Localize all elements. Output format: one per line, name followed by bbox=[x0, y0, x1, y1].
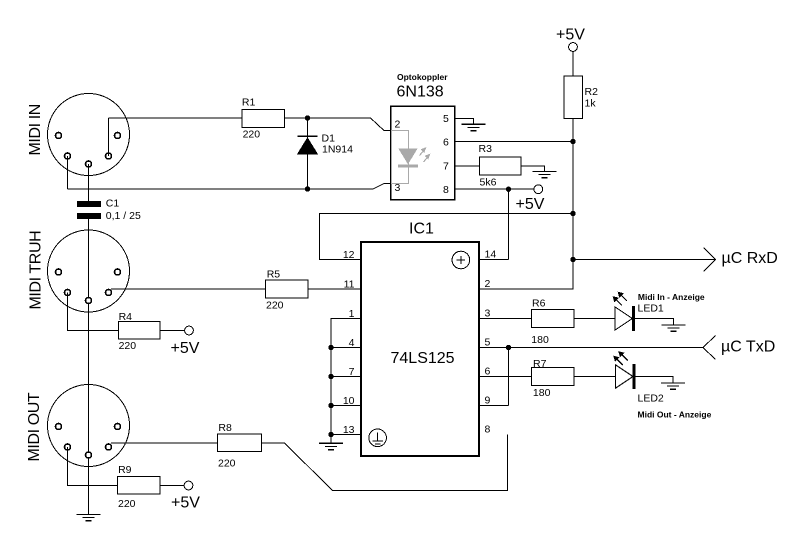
resistor R8 bbox=[218, 434, 262, 452]
ground (R3) bbox=[532, 171, 556, 177]
svg-text:R7: R7 bbox=[533, 358, 547, 370]
wire RxD node to uC RxD arrow bbox=[573, 259, 716, 261]
node junction bus pin13 bbox=[328, 432, 333, 437]
wire bus stub pin13 bbox=[331, 434, 361, 436]
ground (MIDI OUT shield) bbox=[77, 514, 101, 520]
diode D1 1N914 bbox=[298, 135, 318, 137]
wire TxD node down to pin9 bbox=[508, 348, 510, 406]
wire IC1 pin5 to uC TxD bbox=[479, 347, 703, 349]
svg-text:3: 3 bbox=[395, 182, 401, 194]
LED2 light arrows bbox=[613, 351, 627, 365]
node junction TxD/pin9 bbox=[506, 345, 511, 350]
wire IC1 pin6 to R7 bbox=[479, 376, 532, 378]
svg-text:3: 3 bbox=[485, 308, 491, 320]
svg-text:9: 9 bbox=[485, 395, 491, 407]
svg-text:5k6: 5k6 bbox=[480, 177, 497, 189]
wire IC1 pin3 to R6 bbox=[479, 318, 531, 320]
node junction bus pin4 bbox=[328, 345, 333, 350]
wire IC1 pin2 riser to RxD node bbox=[479, 260, 573, 290]
svg-text:R1: R1 bbox=[242, 97, 256, 109]
resistor R6 bbox=[531, 310, 574, 328]
wire LED1 to ground bbox=[635, 319, 674, 325]
node junction R2/pin12 rail bbox=[570, 211, 575, 216]
svg-text:220: 220 bbox=[119, 340, 137, 352]
svg-text:µC RxD: µC RxD bbox=[722, 250, 778, 267]
svg-text:+5V: +5V bbox=[516, 196, 545, 213]
svg-text:+5V: +5V bbox=[556, 27, 585, 44]
ground (IC1 enable bus) bbox=[319, 443, 343, 449]
connector MIDI IN (DIN socket) bbox=[48, 94, 130, 176]
svg-text:R4: R4 bbox=[119, 311, 133, 323]
wire MIDI IN pin5 dropper bbox=[67, 156, 69, 189]
wire R1 to optocoupler pin2 bbox=[285, 118, 391, 131]
svg-text:7: 7 bbox=[443, 161, 449, 173]
svg-text:6N138: 6N138 bbox=[397, 84, 444, 101]
svg-text:180: 180 bbox=[531, 334, 549, 346]
node junction R1/D1 bbox=[305, 115, 310, 120]
wire MIDI OUT pin4 to R8 bbox=[111, 442, 218, 444]
wire MIDI OUT pin5 dropper bbox=[68, 447, 118, 486]
wire bus stub pin10 bbox=[331, 405, 361, 407]
wire R3 to ground bbox=[521, 166, 545, 172]
svg-text:220: 220 bbox=[218, 457, 236, 469]
wire MIDI IN pin4 to R1 bbox=[109, 117, 243, 119]
svg-text:LED1: LED1 bbox=[638, 303, 664, 315]
wire R8 to IC1 pin8 (diagonal route) bbox=[262, 435, 508, 491]
node junction pin8/+5V bbox=[506, 187, 511, 192]
wire C1 down through MIDI TRUH and MIDI OUT to ground bbox=[88, 219, 90, 514]
svg-text:IC1: IC1 bbox=[409, 221, 434, 238]
svg-text:2: 2 bbox=[395, 119, 401, 131]
wire bus to ground bbox=[330, 435, 332, 444]
svg-text:C1: C1 bbox=[106, 198, 120, 210]
resistor R4 bbox=[119, 322, 161, 340]
svg-text:5: 5 bbox=[485, 337, 491, 349]
wire MIDI TRUH pin5 dropper bbox=[68, 293, 119, 331]
arrow uC RxD bbox=[704, 248, 716, 272]
svg-text:8: 8 bbox=[443, 184, 449, 196]
wire MIDI IN pin2 to C1 bbox=[88, 164, 90, 201]
terminal +5V (R4) bbox=[185, 326, 194, 335]
IC U2 74LS125 bbox=[361, 242, 479, 456]
svg-text:11: 11 bbox=[344, 279, 355, 291]
wire IC1 pin9 bbox=[479, 405, 509, 407]
resistor R9 bbox=[118, 477, 161, 495]
svg-text:0,1 / 25: 0,1 / 25 bbox=[106, 210, 141, 222]
svg-text:220: 220 bbox=[118, 498, 136, 510]
wire opto pin7 to R3 bbox=[455, 165, 480, 167]
capacitor C1 bbox=[77, 201, 101, 207]
svg-text:µC TxD: µC TxD bbox=[721, 339, 775, 356]
svg-text:74LS125: 74LS125 bbox=[391, 350, 455, 367]
connector MIDI TRUH (DIN socket) bbox=[48, 230, 130, 312]
wire opto pin8 to +5V terminal bbox=[455, 188, 534, 190]
wire R9 to +5V terminal bbox=[160, 485, 184, 487]
IC1 power symbol bbox=[452, 251, 470, 269]
wire R2 down to RxD node bbox=[572, 118, 574, 259]
wire bus stub pin4 bbox=[331, 347, 361, 349]
wire IC1 pin14 to +5V node bbox=[479, 259, 509, 261]
wire opto pin5 to ground bbox=[455, 118, 474, 124]
wire lower rail to optocoupler pin3 bbox=[68, 184, 391, 190]
svg-text:8: 8 bbox=[485, 424, 491, 436]
LED1 light arrows bbox=[613, 292, 627, 306]
wire LED2 to ground bbox=[636, 377, 673, 383]
connector MIDI OUT (DIN socket) bbox=[48, 385, 130, 467]
node junction pin6/R2 bbox=[570, 139, 575, 144]
wire R6 to LED1 bbox=[574, 318, 615, 320]
ground (opto pin5) bbox=[462, 124, 486, 130]
wire IC1 pin12 to R2 rail bbox=[320, 214, 574, 260]
wire MIDI IN pin4 riser bbox=[108, 118, 110, 156]
wire opto pin6 to R2 node bbox=[455, 141, 574, 143]
svg-text:MIDI OUT: MIDI OUT bbox=[26, 392, 43, 461]
wire R4 to +5V terminal bbox=[160, 330, 185, 332]
svg-text:6: 6 bbox=[485, 366, 491, 378]
svg-text:R9: R9 bbox=[118, 464, 132, 476]
svg-text:1k: 1k bbox=[585, 98, 597, 110]
resistor R5 bbox=[266, 280, 309, 298]
node junction bus pin10 bbox=[328, 403, 333, 408]
wire IC1 enable bus (pins 1,4,7,10,13) bbox=[331, 319, 361, 435]
svg-text:14: 14 bbox=[485, 249, 497, 261]
resistor R1 bbox=[242, 110, 285, 128]
svg-text:Midi Out - Anzeige: Midi Out - Anzeige bbox=[638, 410, 712, 420]
svg-text:2: 2 bbox=[485, 278, 491, 290]
wire MIDI TRUH pin4 to R5 bbox=[111, 288, 266, 290]
svg-text:R8: R8 bbox=[218, 422, 232, 434]
svg-text:Optokoppler: Optokoppler bbox=[397, 72, 448, 82]
wire bus stub pin7 bbox=[331, 376, 361, 378]
terminal +5V (opto pin8) bbox=[534, 185, 543, 194]
optocoupler U1 6N138 bbox=[391, 106, 455, 200]
IC1 ground symbol bbox=[369, 429, 387, 447]
svg-text:220: 220 bbox=[243, 129, 261, 141]
svg-text:220: 220 bbox=[266, 300, 284, 312]
node junction bus pin7 bbox=[328, 374, 333, 379]
svg-text:MIDI IN: MIDI IN bbox=[27, 104, 44, 155]
resistor R7 bbox=[532, 368, 575, 386]
terminal +5V (R9) bbox=[184, 481, 193, 490]
wire +5V node down to IC1 pin14 bbox=[508, 189, 510, 259]
svg-text:LED2: LED2 bbox=[638, 393, 664, 405]
svg-text:R5: R5 bbox=[267, 269, 281, 281]
LED LED1 bbox=[615, 307, 632, 330]
svg-text:180: 180 bbox=[533, 387, 551, 399]
svg-text:MIDI TRUH: MIDI TRUH bbox=[28, 231, 45, 310]
svg-text:+5V: +5V bbox=[171, 340, 200, 357]
svg-text:12: 12 bbox=[343, 249, 355, 261]
svg-text:R6: R6 bbox=[532, 297, 546, 309]
svg-text:R3: R3 bbox=[479, 143, 493, 155]
wire R5 to IC1 pin11 bbox=[308, 288, 361, 290]
node junction D1 bottom bbox=[305, 186, 310, 191]
diode D1 vertical wire bbox=[307, 118, 309, 189]
svg-text:5: 5 bbox=[443, 113, 449, 125]
arrow uC TxD bbox=[703, 336, 716, 360]
terminal +5V (top right) bbox=[569, 43, 578, 52]
svg-text:Midi In - Anzeige: Midi In - Anzeige bbox=[638, 292, 705, 302]
node junction RxD bbox=[570, 257, 575, 262]
LED LED2 bbox=[616, 365, 633, 388]
svg-text:R2: R2 bbox=[585, 86, 599, 98]
svg-text:+5V: +5V bbox=[171, 495, 200, 512]
wire +5V to R2 bbox=[572, 51, 574, 76]
ground (LED2) bbox=[661, 383, 685, 389]
resistor R3 bbox=[479, 157, 521, 175]
resistor R2 bbox=[564, 76, 583, 118]
optocoupler internal LED (gray) bbox=[391, 130, 430, 183]
svg-text:1N914: 1N914 bbox=[322, 144, 353, 156]
wire R7 to LED2 bbox=[574, 376, 616, 378]
svg-text:6: 6 bbox=[443, 136, 449, 148]
ground (LED1) bbox=[662, 325, 686, 331]
